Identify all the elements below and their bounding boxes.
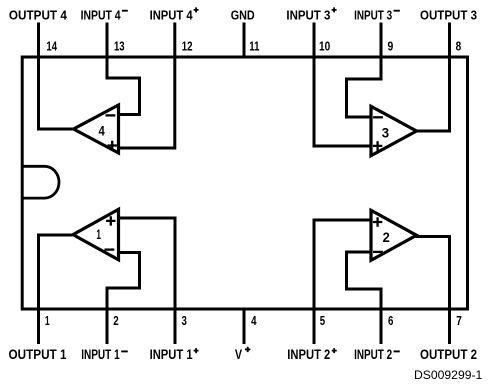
svg-text:INPUT 1: INPUT 1 bbox=[81, 347, 120, 362]
svg-text:INPUT 4: INPUT 4 bbox=[150, 7, 194, 22]
svg-text:9: 9 bbox=[388, 39, 394, 54]
svg-text:INPUT 3: INPUT 3 bbox=[286, 7, 330, 22]
op-amp 1 triangle (left-pointing) bbox=[73, 209, 119, 259]
op-amp 4 minus sign bbox=[106, 114, 116, 116]
svg-text:4: 4 bbox=[99, 122, 105, 138]
wire pin 6 lead to op-amp 2 inverting input bbox=[347, 252, 382, 344]
IC body DIP-14 outline U1 package bbox=[22, 57, 467, 309]
svg-text:OUTPUT 2: OUTPUT 2 bbox=[420, 347, 477, 362]
svg-text:1: 1 bbox=[96, 226, 101, 242]
svg-text:4: 4 bbox=[251, 313, 257, 328]
wire pin 11 GND lead bbox=[243, 23, 246, 59]
svg-text:10: 10 bbox=[319, 39, 330, 54]
svg-text:DS009299-1: DS009299-1 bbox=[414, 368, 483, 382]
svg-text:INPUT 1: INPUT 1 bbox=[150, 347, 193, 362]
op-amp 2 minus sign bbox=[373, 251, 383, 253]
svg-text:INPUT 3: INPUT 3 bbox=[354, 7, 392, 22]
svg-text:14: 14 bbox=[46, 39, 57, 54]
wire pin 13 lead to op-amp 4 inverting input bbox=[107, 23, 140, 115]
svg-text:13: 13 bbox=[114, 39, 125, 54]
svg-text:3: 3 bbox=[182, 313, 187, 328]
svg-text:5: 5 bbox=[320, 313, 325, 328]
svg-text:6: 6 bbox=[388, 313, 393, 328]
svg-text:INPUT 2: INPUT 2 bbox=[287, 347, 330, 362]
pin-1 orientation notch bbox=[22, 166, 59, 198]
wire pin 4 V+ lead bbox=[243, 308, 246, 345]
svg-text:INPUT 2: INPUT 2 bbox=[354, 347, 392, 362]
op-amp 3 plus sign bbox=[373, 141, 382, 150]
wire pin 12 lead to op-amp 4 non-inverting input bbox=[120, 23, 175, 149]
svg-text:11: 11 bbox=[249, 39, 259, 54]
wire pin 9 lead to op-amp 3 inverting input bbox=[347, 23, 382, 118]
svg-text:GND: GND bbox=[231, 7, 255, 22]
op-amp 1 plus sign bbox=[106, 216, 115, 225]
svg-text:2: 2 bbox=[383, 229, 390, 245]
op-amp 2 plus sign bbox=[373, 217, 382, 226]
svg-text:OUTPUT 4: OUTPUT 4 bbox=[9, 7, 68, 22]
svg-text:7: 7 bbox=[456, 313, 462, 328]
wire pin 1 lead to op-amp 1 output bbox=[39, 235, 73, 344]
wire pin 3 lead to op-amp 1 non-inverting input bbox=[120, 218, 175, 344]
svg-text:1: 1 bbox=[45, 313, 50, 328]
wire pin 10 lead to op-amp 3 non-inverting input bbox=[314, 23, 371, 147]
op-amp 1 minus sign bbox=[105, 248, 115, 250]
op-amp 2 triangle (right-pointing) bbox=[371, 210, 417, 260]
svg-text:V: V bbox=[235, 347, 242, 362]
svg-text:INPUT 4: INPUT 4 bbox=[81, 7, 122, 22]
svg-text:3: 3 bbox=[382, 124, 390, 140]
svg-text:8: 8 bbox=[456, 39, 462, 54]
op-amp 4 plus sign bbox=[108, 141, 117, 150]
svg-text:12: 12 bbox=[182, 39, 193, 54]
svg-text:2: 2 bbox=[113, 313, 118, 328]
wire pin 8 lead to op-amp 3 output bbox=[416, 23, 450, 132]
wire pin 5 lead to op-amp 2 non-inverting input bbox=[314, 220, 371, 344]
wire pin 2 lead to op-amp 1 inverting input bbox=[107, 253, 140, 345]
op-amp 4 triangle (left-pointing) bbox=[74, 105, 119, 153]
wire pin 14 lead to op-amp 4 output bbox=[39, 23, 73, 130]
wire pin 7 lead to op-amp 2 output bbox=[416, 237, 450, 345]
svg-text:OUTPUT 3: OUTPUT 3 bbox=[420, 7, 477, 22]
op-amp 3 minus sign bbox=[373, 116, 383, 118]
op-amp 3 triangle (right-pointing) bbox=[371, 106, 417, 155]
svg-text:OUTPUT 1: OUTPUT 1 bbox=[9, 347, 67, 362]
